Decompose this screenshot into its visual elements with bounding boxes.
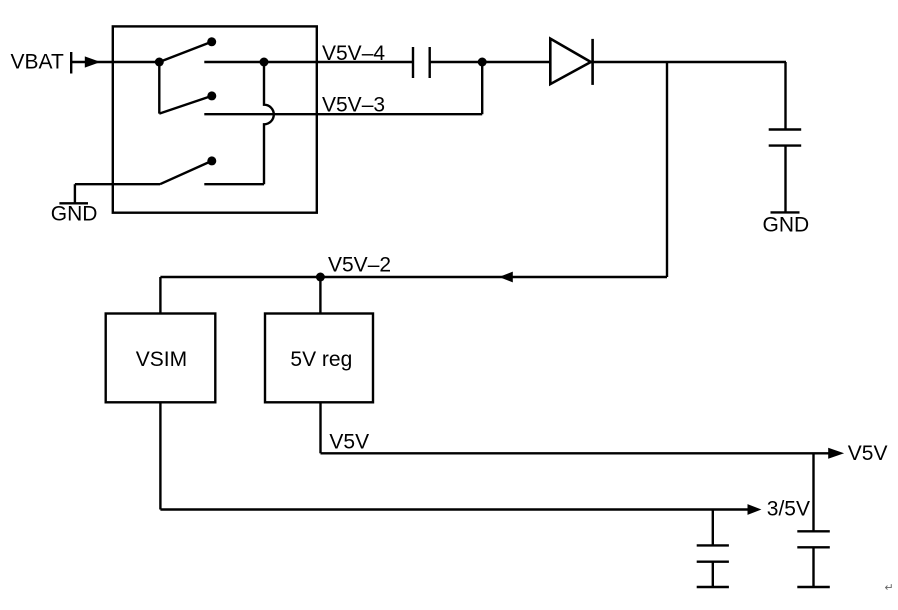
svg-text:V5V: V5V — [329, 431, 369, 454]
wire drop to capacitor C3 — [712, 510, 714, 546]
node junction dot on V5V-2 — [316, 273, 325, 282]
wire capacitor to diode — [430, 61, 551, 63]
wire bottom contact — [204, 183, 264, 185]
svg-text:3/5V: 3/5V — [767, 498, 810, 521]
wire V5V — [321, 452, 829, 454]
V5V-2 arrowhead — [499, 272, 513, 283]
wire diode output — [591, 61, 786, 63]
capacitor C1 plate right — [429, 47, 431, 78]
block VSIM box — [106, 314, 216, 403]
wire C2 to ground — [784, 146, 786, 213]
svg-text:V5V–4: V5V–4 — [322, 42, 385, 65]
svg-text:VSIM: VSIM — [136, 348, 187, 371]
switch S2 throw dot — [207, 91, 216, 100]
capacitor C3 plate bottom — [697, 561, 729, 563]
svg-text:↵: ↵ — [885, 582, 894, 594]
3/5V arrowhead — [748, 504, 762, 515]
ground bar C4 — [797, 586, 830, 588]
capacitor C3 plate top — [697, 544, 729, 546]
wire pole riser — [158, 62, 160, 114]
block 5V reg box — [265, 314, 373, 403]
wire V5V-3 riser to junction — [481, 62, 483, 114]
ground bar right — [771, 211, 800, 213]
switch S3 throw dot — [207, 156, 216, 165]
wire V5V-4 — [204, 61, 413, 63]
wire 5V reg output — [319, 402, 321, 453]
wire V5V-2 — [160, 276, 667, 278]
wire VBAT input — [71, 61, 159, 63]
wire drop to V5V-2 — [666, 62, 668, 277]
V5V arrowhead — [828, 448, 844, 459]
svg-text:V5V: V5V — [848, 442, 888, 465]
VBAT terminal bar — [70, 52, 72, 74]
ground bar C3 — [697, 586, 729, 588]
node pole junction dot — [155, 58, 164, 67]
wire GND drop — [74, 184, 76, 203]
capacitor C2 plate top — [769, 128, 802, 130]
wire V5V-2 to VSIM — [159, 277, 161, 314]
switch S3 arm — [160, 161, 212, 184]
switch S2 arm — [159, 96, 212, 114]
VBAT arrowhead — [85, 56, 101, 67]
wire C3 to ground — [712, 562, 714, 587]
switch S1 throw dot — [207, 37, 216, 46]
svg-text:GND: GND — [51, 202, 98, 225]
node junction dot after capacitor — [478, 58, 487, 67]
capacitor C4 plate top — [797, 530, 830, 532]
wire C4 to ground — [812, 547, 814, 587]
svg-text:GND: GND — [763, 213, 810, 236]
wire crossover with hop — [264, 66, 274, 184]
svg-text:VBAT: VBAT — [11, 51, 64, 74]
switch box U1 — [113, 26, 317, 212]
svg-text:V5V–3: V5V–3 — [322, 94, 385, 117]
wire drop to capacitor C2 — [784, 62, 786, 130]
diode D1 cathode bar — [591, 39, 594, 85]
svg-text:5V reg: 5V reg — [290, 348, 352, 371]
wire VSIM output — [159, 402, 161, 509]
wire to GND — [75, 183, 160, 185]
wire V5V-2 to 5V reg — [319, 277, 321, 314]
wire V5V-3 — [204, 113, 482, 115]
node junction dot on V5V-4 — [260, 58, 269, 67]
capacitor C2 plate bottom — [769, 144, 802, 146]
diode D1 triangle — [550, 39, 591, 85]
wire 3/5V — [160, 508, 747, 510]
ground bar left — [59, 202, 88, 204]
switch S1 arm — [159, 42, 211, 62]
wire drop to capacitor C4 — [812, 453, 814, 531]
capacitor C1 plate left — [412, 47, 414, 78]
capacitor C4 plate bottom — [797, 546, 830, 548]
svg-text:V5V–2: V5V–2 — [328, 254, 391, 277]
